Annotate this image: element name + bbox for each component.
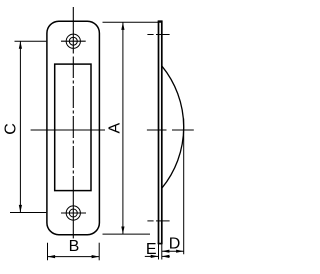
side view right face extension for E <box>161 244 163 260</box>
svg-text:A: A <box>106 123 123 134</box>
dimension D line <box>162 250 184 252</box>
screw hole top: inner circle <box>69 37 77 45</box>
dimension C arrow down <box>19 205 22 213</box>
svg-text:D: D <box>169 235 181 252</box>
dimension B extension line right <box>98 243 100 261</box>
horizontal centerline (side view plate) <box>147 129 167 131</box>
plate outline (front view rounded rect) <box>47 21 100 235</box>
horizontal centerline (latch bulge) <box>172 129 194 131</box>
dimension C line <box>19 41 21 212</box>
dimension A arrow up <box>121 22 124 30</box>
dimension B extension line left <box>47 243 49 261</box>
side view plate top cap <box>158 20 163 22</box>
dimension D extension line (arc extremum) <box>183 119 185 255</box>
latch cutout rectangle <box>55 64 91 191</box>
svg-text:E: E <box>146 241 157 258</box>
side view hole tick bottom <box>147 220 153 222</box>
dimension E arrow right (points left) <box>162 255 170 258</box>
dimension A extension line bottom <box>103 233 151 235</box>
latch tongue arc <box>162 66 184 188</box>
horizontal centerline (front view) <box>31 129 105 131</box>
side view plate bottom cap <box>158 243 163 245</box>
dimension B line <box>48 256 100 258</box>
dimension A line <box>122 22 124 234</box>
side view plate left face <box>158 21 160 244</box>
dimension D arrow right <box>176 250 184 253</box>
screw hole bottom: crosshair horizontal <box>61 212 86 214</box>
screw hole top: outer circle <box>66 34 80 48</box>
screw hole bottom: inner circle <box>69 209 77 217</box>
side view hole tick top <box>147 34 153 36</box>
screw hole bottom: outer circle <box>66 206 80 220</box>
svg-text:C: C <box>3 123 20 135</box>
dimension A arrow down <box>121 227 124 235</box>
dimension E leader left <box>145 255 159 257</box>
dimension E arrow left (points right) <box>151 255 159 258</box>
vertical centerline (dash-dot segments) <box>72 7 74 238</box>
dimension C arrow up <box>19 41 22 49</box>
dimension C extension line bottom <box>10 212 46 214</box>
side view left face extension for E <box>158 244 160 260</box>
dimension B arrow left <box>48 255 56 258</box>
side view plate right face <box>161 21 163 244</box>
dimension C extension line top <box>15 40 47 42</box>
svg-text:B: B <box>69 238 80 255</box>
dimension A extension line top <box>103 21 163 23</box>
dimension D arrow left <box>162 250 170 253</box>
dimension E leader right <box>162 255 170 257</box>
screw hole top: crosshair horizontal <box>61 40 86 42</box>
dimension B arrow right <box>92 255 100 258</box>
